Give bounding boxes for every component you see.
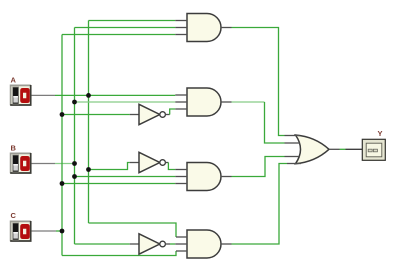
wire A branch to AND4 input 1 — [89, 223, 177, 237]
wire AND3 output to OR input 3 — [232, 157, 285, 177]
wire A pin stub — [32, 94, 56, 96]
wire A bus vertical — [88, 21, 90, 224]
junction dot B bus / AND3 branch — [72, 174, 77, 179]
svg-text:A: A — [11, 76, 17, 85]
inverter NOT3 — [130, 234, 170, 254]
inverter NOT2 — [130, 152, 169, 172]
junction dot A bus / NOT2 branch — [86, 167, 91, 172]
digit 0 of switch C — [20, 224, 30, 239]
junction dot B bus / wire B — [72, 161, 77, 166]
wire B branch to AND1 input 2 — [75, 27, 176, 29]
junction dot C bus / NOT1 branch — [60, 112, 65, 117]
junction dot B bus / AND2 branch — [72, 100, 77, 105]
digit 0 of switch A — [20, 88, 30, 103]
junction dot C bus / AND3 branch — [60, 181, 65, 186]
wire NOT1 output to AND2 input 3 — [170, 109, 176, 115]
AND gate 3 — [175, 163, 231, 191]
svg-text:B: B — [11, 144, 17, 153]
wire NOT2 output to AND3 input 1 — [168, 163, 175, 170]
AND gate 2 — [175, 88, 231, 116]
wire C pin stub — [32, 230, 57, 232]
wire C branch to AND4 input 3 — [62, 251, 176, 256]
input switch B body — [10, 153, 31, 174]
junction dot C bus / wire C — [60, 229, 65, 234]
OR gate — [285, 135, 340, 164]
svg-text:C: C — [11, 211, 17, 220]
wire B branch to AND2 input 2 (light) — [75, 101, 176, 103]
wire OR output — [340, 148, 346, 150]
wire B pin stub — [32, 163, 56, 165]
wire C to bus — [56, 230, 62, 232]
input switch C body — [10, 221, 31, 242]
wire B branch to AND3 input 2 — [75, 176, 176, 178]
wire AND1 output to OR input 1 — [232, 28, 285, 136]
wire C bus vertical — [61, 35, 63, 256]
output indicator Y — [362, 139, 385, 160]
wire AND2 output to OR input 2 — [265, 102, 285, 143]
wire B to bus (light) — [55, 163, 75, 165]
svg-text:Y: Y — [378, 129, 383, 138]
wire AND4 output to OR input 4 — [232, 164, 288, 245]
wire B branch to NOT3 input — [75, 243, 130, 245]
wire A branch to AND1 input 1 — [89, 20, 176, 22]
input switch A body — [10, 85, 31, 106]
AND gate 1 — [175, 14, 231, 42]
wire C branch to AND1 input 3 — [62, 34, 175, 36]
AND gate 4 — [175, 230, 231, 258]
wire AND2 output to OR input 2 (light segment) — [232, 101, 265, 103]
wire output Y pin stub — [346, 148, 363, 150]
wire B bus vertical — [74, 28, 76, 245]
wire NOT3 output to AND4 input 2 — [170, 243, 175, 245]
wire C branch to AND3 input 3 — [62, 183, 175, 185]
digit 0 of switch B — [20, 156, 30, 171]
junction dot A bus / wire A — [86, 93, 91, 98]
wire A branch to NOT2 input — [89, 163, 130, 170]
wire C branch to NOT1 input — [62, 114, 130, 116]
inverter NOT1 — [130, 104, 170, 124]
wire A horizontal to AND2 — [55, 94, 175, 96]
